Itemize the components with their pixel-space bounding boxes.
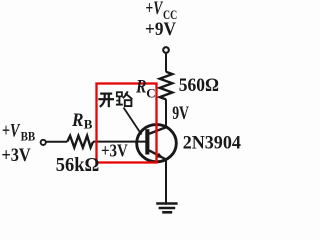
svg-text:C: C (146, 85, 155, 100)
svg-text:+V: +V (2, 120, 20, 141)
svg-text:56kΩ: 56kΩ (56, 154, 100, 176)
svg-text:R: R (71, 110, 83, 131)
svg-text:+3V: +3V (101, 141, 128, 161)
svg-text:B: B (84, 117, 93, 132)
svg-text:9V: 9V (172, 103, 189, 124)
svg-text:+3V: +3V (2, 145, 31, 166)
svg-text:560Ω: 560Ω (179, 75, 219, 96)
svg-text:2N3904: 2N3904 (183, 133, 242, 154)
svg-text:+9V: +9V (145, 19, 176, 40)
svg-text:BB: BB (21, 130, 36, 144)
svg-text:+V: +V (146, 0, 164, 19)
svg-text:R: R (135, 78, 146, 98)
